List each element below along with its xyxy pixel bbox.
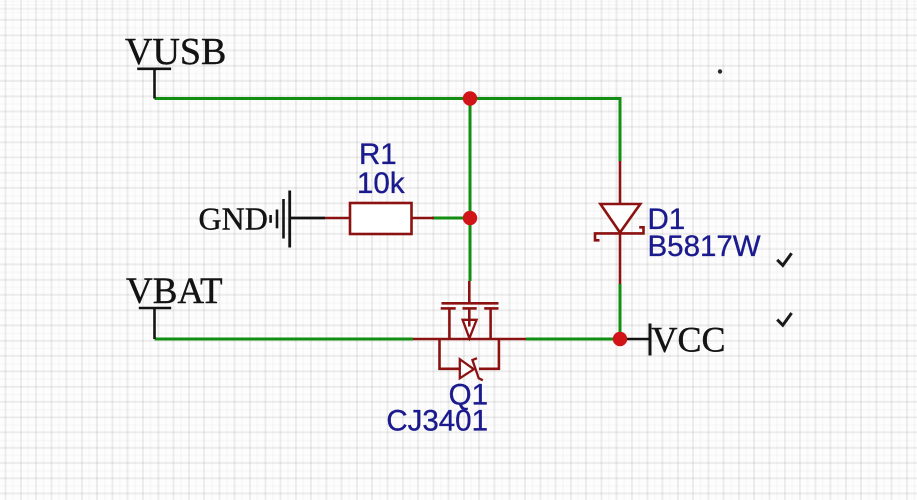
wire VBAT horizontal — [155, 338, 414, 341]
junction dot top — [463, 91, 477, 105]
port VUSB — [137, 69, 171, 99]
gate bar — [442, 302, 499, 305]
body diode loop — [440, 339, 460, 369]
ground GND symbol — [271, 191, 325, 248]
diode D1 (schottky) — [595, 161, 644, 284]
wire R1 to junction — [432, 217, 470, 220]
wire gate vertical — [469, 99, 472, 282]
svg-text:VUSB: VUSB — [125, 31, 226, 73]
svg-text:CJ3401: CJ3401 — [386, 405, 488, 438]
junction dot middle — [463, 211, 477, 225]
channel bars — [441, 307, 456, 310]
svg-text:VCC: VCC — [652, 320, 726, 360]
source-drain rail — [413, 338, 526, 341]
port VCC — [626, 324, 650, 356]
port VBAT — [139, 308, 171, 339]
junction dot VCC — [613, 332, 627, 346]
stray dot — [718, 69, 722, 73]
resistor R1 — [325, 203, 434, 234]
svg-text:VBAT: VBAT — [126, 271, 223, 312]
body diode — [460, 359, 474, 378]
checkmark 1 — [777, 253, 791, 265]
wire Q1 to VCC junction — [526, 338, 620, 341]
gate pin from top — [468, 281, 471, 305]
svg-text:10k: 10k — [357, 167, 405, 200]
wire VUSB horizontal top — [155, 99, 621, 162]
transistor Q1 PMOS — [413, 281, 526, 380]
wire diode to VCC junction — [619, 284, 622, 339]
svg-text:GND: GND — [199, 201, 268, 237]
svg-text:B5817W: B5817W — [648, 230, 761, 263]
checkmark 2 — [777, 313, 791, 325]
stubs — [448, 310, 451, 341]
